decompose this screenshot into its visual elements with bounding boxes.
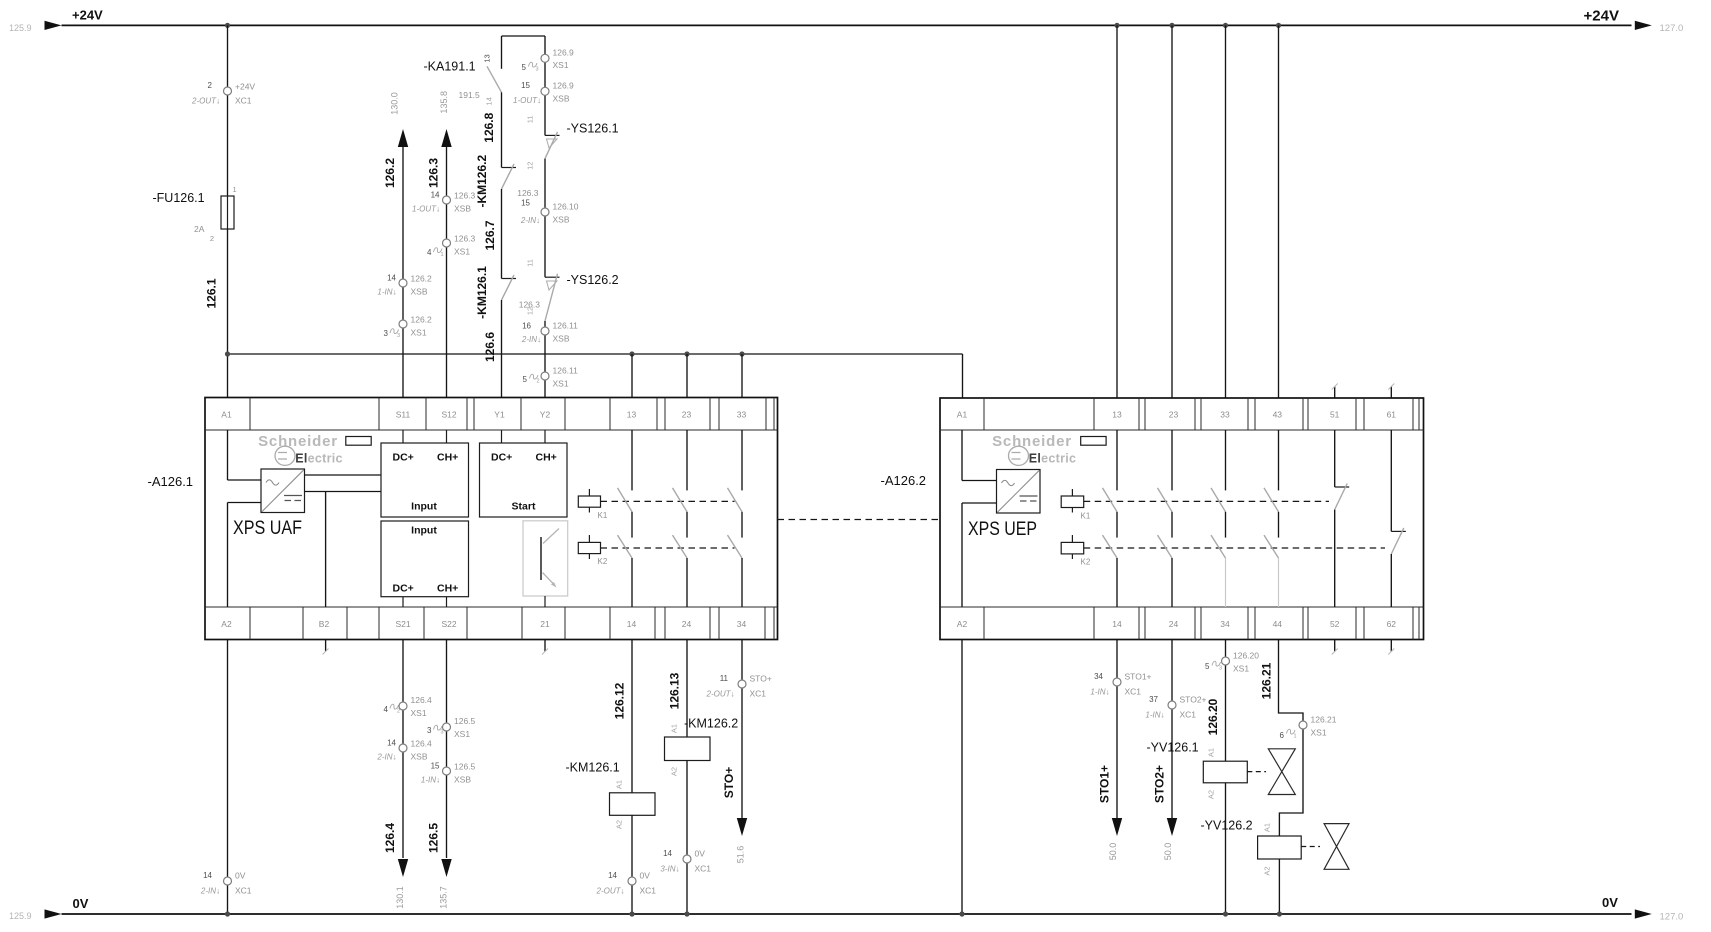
- svg-text:Input: Input: [411, 525, 437, 537]
- contact K2 row wire 43 right: [1264, 535, 1279, 558]
- svg-text:51: 51: [1330, 410, 1340, 420]
- stub above terminal 51: [1334, 387, 1336, 399]
- power supply block right: [997, 470, 1041, 514]
- svg-text:XSB: XSB: [553, 215, 570, 225]
- svg-text:Electric: Electric: [295, 452, 343, 466]
- svg-text:126.4: 126.4: [383, 823, 397, 853]
- svg-text:XPS UEP: XPS UEP: [968, 518, 1037, 540]
- svg-text:126.4: 126.4: [411, 695, 433, 705]
- svg-text:XC1: XC1: [235, 886, 252, 896]
- wire 51 upper + NC contact K1 row: [1334, 430, 1336, 487]
- wire A1 into power block: [227, 430, 229, 480]
- svg-text:+24V: +24V: [1584, 8, 1619, 25]
- svg-text:XS1: XS1: [553, 379, 569, 389]
- wire A2 from power block right: [962, 502, 997, 504]
- stub below 21: [544, 640, 546, 652]
- wire +24V feed down from top rail: [227, 25, 229, 196]
- svg-text:3-IN↓: 3-IN↓: [660, 865, 679, 874]
- horizontal bus wire: [228, 353, 963, 355]
- svg-text:14: 14: [1112, 619, 1122, 629]
- wire 34 lower segment right: [1225, 558, 1227, 607]
- svg-text:23: 23: [682, 410, 692, 420]
- svg-text:191.5: 191.5: [459, 90, 481, 100]
- svg-text:STO2+: STO2+: [1180, 695, 1207, 705]
- stub 21 from actuator: [544, 596, 546, 607]
- wire 24 lower segment right: [1171, 558, 1173, 607]
- valve symbol YV126.1: [1268, 749, 1295, 795]
- contact K2 row wire 33: [728, 535, 743, 558]
- dashed link K1 left: [601, 500, 735, 502]
- svg-text:3: 3: [1219, 666, 1222, 672]
- svg-text:14: 14: [627, 619, 637, 629]
- svg-text:13: 13: [1112, 410, 1122, 420]
- svg-text:DC+: DC+: [491, 452, 512, 464]
- svg-text:126.5: 126.5: [454, 716, 476, 726]
- svg-text:XS1: XS1: [1233, 664, 1249, 674]
- svg-text:15: 15: [431, 762, 440, 771]
- inter-module dashed link: [778, 519, 941, 521]
- svg-text:126.8: 126.8: [482, 112, 496, 142]
- wire bus to terminal 23: [686, 354, 688, 398]
- svg-text:15: 15: [521, 81, 530, 90]
- svg-text:XS1: XS1: [1311, 728, 1327, 738]
- dashed link K2 right: [1084, 547, 1385, 549]
- terminal band separators left module bottom: [249, 607, 251, 640]
- svg-text:11: 11: [526, 115, 535, 123]
- wire 23-24 mid segment right: [1171, 512, 1173, 538]
- svg-text:126.13: 126.13: [668, 672, 682, 709]
- svg-text:126.20: 126.20: [1206, 698, 1220, 735]
- svg-text:127.0: 127.0: [1660, 23, 1684, 34]
- svg-text:3: 3: [441, 730, 444, 736]
- stub S21 from input2: [402, 597, 404, 607]
- svg-text:126.3: 126.3: [454, 191, 476, 201]
- svg-text:STO1+: STO1+: [1125, 672, 1152, 682]
- svg-text:126.12: 126.12: [613, 682, 627, 719]
- wire 33-34 mid segment right: [1225, 512, 1227, 538]
- svg-text:XC1: XC1: [1125, 687, 1142, 697]
- svg-text:1-IN↓: 1-IN↓: [421, 776, 440, 785]
- svg-text:XSB: XSB: [553, 334, 570, 344]
- svg-text:Schneider: Schneider: [992, 433, 1072, 450]
- svg-text:2-IN↓: 2-IN↓: [200, 887, 220, 896]
- wire 126.3 segment: [544, 159, 546, 278]
- svg-text:S22: S22: [441, 619, 456, 629]
- svg-text:K2: K2: [598, 557, 608, 566]
- stub Y1 to start: [501, 430, 503, 443]
- contact K2 row wire 13 right: [1103, 535, 1118, 558]
- junction bus 33: [739, 351, 744, 356]
- wire 126.1 fuse to bus: [227, 229, 229, 354]
- wire 33 upper segment: [741, 430, 743, 490]
- svg-text:126.9: 126.9: [553, 48, 575, 58]
- contact K1 row wire 13: [618, 488, 633, 512]
- wire 126.13 from 24: [686, 640, 688, 738]
- svg-text:0V: 0V: [1602, 895, 1618, 910]
- wire 23 upper segment: [686, 430, 688, 490]
- svg-text:XPS UAF: XPS UAF: [233, 517, 302, 539]
- svg-text:126.21: 126.21: [1260, 662, 1274, 699]
- stub S12 to input1: [446, 430, 448, 443]
- wire bus to terminal 33: [741, 354, 743, 398]
- svg-text:126.10: 126.10: [553, 202, 579, 212]
- svg-text:2-OUT↓: 2-OUT↓: [596, 887, 625, 896]
- svg-text:2: 2: [537, 379, 540, 385]
- svg-text:-KM126.1: -KM126.1: [566, 761, 620, 775]
- svg-text:126.2: 126.2: [383, 158, 397, 188]
- svg-text:CH+: CH+: [437, 583, 458, 595]
- svg-text:43: 43: [1273, 410, 1283, 420]
- stub below B2: [325, 640, 327, 652]
- wire 62 lower segment: [1390, 554, 1392, 607]
- svg-text:-A126.2: -A126.2: [881, 473, 927, 488]
- svg-text:126.3: 126.3: [519, 300, 541, 310]
- wire 52 lower segment: [1334, 510, 1336, 607]
- svg-text:Input: Input: [411, 501, 437, 513]
- svg-text:14: 14: [485, 97, 494, 105]
- wire 33-34 mid segment: [741, 512, 743, 538]
- svg-text:126.3: 126.3: [454, 234, 476, 244]
- svg-text:135.7: 135.7: [439, 886, 449, 909]
- svg-text:34: 34: [737, 619, 747, 629]
- wire 126.4 from S21: [402, 640, 404, 859]
- svg-text:13: 13: [483, 54, 492, 62]
- svg-text:4: 4: [384, 705, 389, 714]
- svg-text:STO+: STO+: [722, 767, 736, 798]
- svg-text:44: 44: [1273, 619, 1283, 629]
- svg-text:14: 14: [203, 871, 212, 880]
- svg-text:+24V: +24V: [72, 8, 103, 23]
- svg-text:A2: A2: [670, 767, 679, 776]
- svg-text:0V: 0V: [235, 871, 246, 881]
- svg-text:XC1: XC1: [750, 689, 767, 699]
- svg-text:135.8: 135.8: [439, 91, 449, 114]
- svg-text:K1: K1: [1081, 512, 1091, 521]
- wire 43 upper segment right module: [1278, 430, 1280, 490]
- svg-text:126.11: 126.11: [553, 366, 579, 376]
- svg-text:2-OUT↓: 2-OUT↓: [706, 690, 735, 699]
- wire 23-24 mid segment: [686, 512, 688, 538]
- svg-text:11: 11: [526, 259, 535, 267]
- svg-text:K2: K2: [1081, 558, 1091, 567]
- svg-text:126.2: 126.2: [411, 274, 433, 284]
- junction top rail / feed: [225, 23, 230, 28]
- svg-text:24: 24: [682, 619, 692, 629]
- svg-text:127.0: 127.0: [1660, 912, 1684, 923]
- svg-text:A1: A1: [615, 780, 624, 789]
- svg-text:50.0: 50.0: [1163, 843, 1173, 861]
- svg-text:3: 3: [384, 329, 389, 338]
- wire power to input blocks lower + B2 branch: [305, 491, 382, 493]
- svg-text:62: 62: [1387, 619, 1397, 629]
- svg-text:A2: A2: [615, 820, 624, 829]
- svg-text:2: 2: [397, 709, 400, 715]
- svg-text:126.6: 126.6: [483, 332, 497, 362]
- wire A2 right module to 0V: [961, 640, 963, 915]
- svg-text:3: 3: [536, 67, 539, 73]
- wire 14 lower segment: [631, 558, 633, 607]
- wire 13-14 mid segment: [631, 512, 633, 538]
- terminal band separators left module top: [249, 398, 251, 431]
- dashed link K2 left: [601, 547, 735, 549]
- Input block 1: [381, 443, 469, 517]
- svg-text:3: 3: [397, 333, 400, 339]
- svg-text:-KM126.2: -KM126.2: [684, 717, 738, 731]
- wire 126.20 from 34: [1225, 640, 1227, 762]
- top rail feeds to 13/23/33/43: [1114, 23, 1119, 28]
- wire STO1+ from 14: [1116, 640, 1118, 819]
- svg-text:XSB: XSB: [454, 775, 471, 785]
- svg-text:XS1: XS1: [553, 60, 569, 70]
- wire 126.21 from 44 with jog: [1279, 640, 1304, 837]
- wire STO2+ from 24: [1171, 640, 1173, 819]
- svg-text:1: 1: [441, 252, 444, 258]
- svg-text:13: 13: [627, 410, 637, 420]
- svg-text:S12: S12: [441, 410, 456, 420]
- wire 61 upper + NC contact K2 row: [1390, 430, 1392, 531]
- svg-text:0V: 0V: [640, 871, 651, 881]
- wire 33 upper segment right module: [1225, 430, 1227, 490]
- svg-text:126.5: 126.5: [427, 823, 441, 853]
- svg-text:XC1: XC1: [235, 96, 252, 106]
- svg-text:STO2+: STO2+: [1153, 765, 1167, 803]
- wire 126.5 from S22: [446, 640, 448, 859]
- svg-text:-KM126.1: -KM126.1: [475, 266, 489, 319]
- stub above terminal 61: [1390, 387, 1392, 399]
- svg-text:XS1: XS1: [411, 708, 427, 718]
- svg-text:2-IN↓: 2-IN↓: [376, 753, 396, 762]
- svg-text:Electric: Electric: [1029, 452, 1077, 466]
- svg-text:A1: A1: [1263, 823, 1272, 832]
- svg-text:XS1: XS1: [411, 328, 427, 338]
- svg-text:-KA191.1: -KA191.1: [424, 60, 476, 74]
- relay coil K1 right: [1071, 489, 1073, 496]
- svg-text:A1: A1: [1207, 748, 1216, 757]
- svg-text:Schneider: Schneider: [258, 433, 338, 450]
- svg-text:5: 5: [522, 63, 527, 72]
- wire 44 lower segment right: [1278, 558, 1280, 607]
- svg-text:15: 15: [521, 199, 530, 208]
- wire A2 left module to 0V: [227, 640, 229, 915]
- svg-text:126.2: 126.2: [411, 315, 433, 325]
- relay coil K2 right: [1071, 535, 1073, 542]
- svg-text:126.9: 126.9: [553, 81, 575, 91]
- relay coil K1 left: [588, 489, 590, 496]
- contact K1 row wire 33: [728, 488, 743, 512]
- svg-text:5: 5: [1205, 662, 1210, 671]
- stub below 52: [1334, 640, 1336, 652]
- power supply block left: [261, 469, 305, 513]
- contact K1 row wire 33 right: [1211, 488, 1226, 512]
- svg-text:CH+: CH+: [437, 452, 458, 464]
- svg-text:XSB: XSB: [454, 204, 471, 214]
- wire bus to module A1: [227, 354, 229, 398]
- svg-text:6: 6: [1280, 731, 1285, 740]
- wire power to input blocks upper: [305, 474, 382, 476]
- wire A2 from power block: [228, 502, 262, 504]
- svg-text:125.9: 125.9: [9, 23, 32, 33]
- svg-text:DC+: DC+: [393, 452, 414, 464]
- svg-text:33: 33: [737, 410, 747, 420]
- svg-text:STO+: STO+: [750, 674, 772, 684]
- svg-text:37: 37: [1149, 695, 1158, 704]
- svg-text:14: 14: [663, 849, 672, 858]
- svg-text:XS1: XS1: [454, 247, 470, 257]
- svg-text:XS1: XS1: [454, 729, 470, 739]
- stub S11 to input1: [402, 430, 404, 443]
- svg-text:130.1: 130.1: [395, 886, 405, 909]
- wire bus to terminal 13: [631, 354, 633, 398]
- relay coil K2 left: [588, 535, 590, 542]
- svg-text:3: 3: [427, 726, 432, 735]
- contact K1 row wire 23: [673, 488, 688, 512]
- svg-text:XSB: XSB: [411, 752, 428, 762]
- junction bus 23: [684, 351, 689, 356]
- svg-text:2: 2: [210, 234, 214, 243]
- svg-text:61: 61: [1387, 410, 1397, 420]
- svg-text:1-IN↓: 1-IN↓: [377, 288, 396, 297]
- wire sensor chain from bracket: [544, 36, 546, 135]
- svg-text:1-IN↓: 1-IN↓: [1145, 711, 1164, 720]
- svg-text:126.3: 126.3: [517, 188, 539, 198]
- svg-text:126.1: 126.1: [205, 278, 219, 308]
- svg-text:XC1: XC1: [640, 886, 657, 896]
- wire 34 lower segment: [741, 558, 743, 607]
- svg-text:2-IN↓: 2-IN↓: [520, 216, 540, 225]
- svg-text:1-IN↓: 1-IN↓: [1090, 688, 1109, 697]
- svg-text:STO1+: STO1+: [1098, 765, 1112, 803]
- wire 126.7: [501, 189, 503, 279]
- svg-text:1: 1: [233, 185, 237, 194]
- svg-text:A1: A1: [957, 410, 968, 420]
- svg-text:2A: 2A: [194, 224, 205, 234]
- svg-text:126.11: 126.11: [553, 321, 579, 331]
- stub S22 from input2: [446, 597, 448, 607]
- svg-text:-YV126.2: -YV126.2: [1201, 818, 1253, 832]
- contact K2 row wire 13: [618, 535, 633, 558]
- svg-text:125.9: 125.9: [9, 911, 32, 921]
- svg-text:Start: Start: [512, 501, 536, 513]
- svg-text:XC1: XC1: [695, 864, 712, 874]
- svg-text:-YS126.1: -YS126.1: [567, 122, 619, 136]
- svg-text:23: 23: [1169, 410, 1179, 420]
- wire 126.8: [501, 92, 503, 167]
- wire bracket top: [502, 35, 546, 37]
- svg-text:126.4: 126.4: [411, 739, 433, 749]
- svg-text:0V: 0V: [695, 849, 706, 859]
- svg-text:14: 14: [431, 191, 440, 200]
- wire 13-14 mid segment right: [1116, 512, 1118, 538]
- dashed link to valve 2: [1301, 846, 1320, 848]
- contact K1 row wire 13 right: [1103, 488, 1118, 512]
- wire bus corner down to right module A1: [962, 354, 964, 398]
- svg-text:126.5: 126.5: [454, 762, 476, 772]
- svg-text:-YV126.1: -YV126.1: [1147, 741, 1199, 755]
- svg-text:12: 12: [526, 162, 535, 170]
- svg-text:Y2: Y2: [540, 410, 551, 420]
- svg-text:-FU126.1: -FU126.1: [153, 191, 205, 205]
- svg-text:130.0: 130.0: [390, 92, 400, 115]
- contact K2 row wire 33 right: [1211, 535, 1226, 558]
- wire 126.6 down to Y1: [501, 300, 503, 398]
- svg-text:1-OUT↓: 1-OUT↓: [513, 96, 541, 105]
- svg-text:XSB: XSB: [553, 94, 570, 104]
- svg-text:CH+: CH+: [536, 452, 557, 464]
- svg-text:1-OUT↓: 1-OUT↓: [412, 205, 440, 214]
- svg-text:2-OUT↓: 2-OUT↓: [191, 97, 220, 106]
- svg-text:XSB: XSB: [411, 287, 428, 297]
- dashed link K1 right: [1084, 500, 1329, 502]
- svg-text:-A126.1: -A126.1: [148, 474, 194, 489]
- svg-text:Y1: Y1: [494, 410, 505, 420]
- svg-text:24: 24: [1169, 619, 1179, 629]
- svg-text:0V: 0V: [73, 896, 89, 911]
- Input block 2: [381, 521, 469, 597]
- start actuator box: [523, 521, 568, 596]
- svg-text:34: 34: [1094, 672, 1103, 681]
- svg-text:S11: S11: [396, 410, 411, 420]
- svg-text:50.0: 50.0: [1108, 843, 1118, 861]
- svg-text:+24V: +24V: [235, 82, 255, 92]
- wire STO+ from 34: [741, 640, 743, 819]
- svg-text:52: 52: [1330, 619, 1340, 629]
- valve symbol YV126.2: [1324, 824, 1349, 870]
- svg-text:-YS126.2: -YS126.2: [567, 273, 619, 287]
- stub below 62: [1390, 640, 1392, 652]
- wire down to Y2: [544, 321, 546, 398]
- svg-text:A2: A2: [957, 619, 968, 629]
- wire 13 upper segment right module: [1116, 430, 1118, 490]
- stub Y2 to start: [544, 430, 546, 443]
- contact K2 row wire 23: [673, 535, 688, 558]
- svg-text:S21: S21: [395, 619, 410, 629]
- svg-text:14: 14: [387, 739, 396, 748]
- contact K1 row wire 43 right: [1264, 488, 1279, 512]
- svg-text:5: 5: [523, 375, 528, 384]
- svg-text:34: 34: [1220, 619, 1230, 629]
- svg-text:A1: A1: [670, 724, 679, 733]
- contact K1 row wire 23 right: [1158, 488, 1173, 512]
- svg-text:126.3: 126.3: [427, 158, 441, 188]
- svg-text:126.20: 126.20: [1233, 651, 1259, 661]
- wire A1 into power block right: [961, 430, 963, 481]
- wire 23 upper segment right module: [1171, 430, 1173, 490]
- svg-text:A2: A2: [221, 619, 232, 629]
- wire 126.12 from 14: [631, 640, 633, 793]
- junction bus 13: [629, 351, 634, 356]
- Start block: [480, 443, 568, 517]
- svg-text:4: 4: [427, 248, 432, 257]
- svg-text:51.6: 51.6: [736, 846, 746, 864]
- wire 43-44 mid segment right: [1278, 512, 1280, 538]
- svg-text:33: 33: [1220, 410, 1230, 420]
- svg-text:-KM126.2: -KM126.2: [475, 155, 489, 208]
- svg-text:XC1: XC1: [1180, 710, 1197, 720]
- svg-text:DC+: DC+: [393, 583, 414, 595]
- svg-text:126.21: 126.21: [1311, 715, 1337, 725]
- svg-text:A2: A2: [1207, 790, 1216, 799]
- svg-text:K1: K1: [598, 511, 608, 520]
- svg-text:2-IN↓: 2-IN↓: [521, 335, 541, 344]
- contact KA191.1 (NO): [501, 36, 503, 69]
- svg-text:16: 16: [522, 322, 531, 331]
- wire 14 lower segment right: [1116, 558, 1118, 607]
- terminal band separators right module: [983, 398, 985, 430]
- svg-text:14: 14: [608, 871, 617, 880]
- svg-text:A2: A2: [1263, 866, 1272, 875]
- svg-text:126.7: 126.7: [483, 220, 497, 250]
- svg-text:B2: B2: [319, 619, 330, 629]
